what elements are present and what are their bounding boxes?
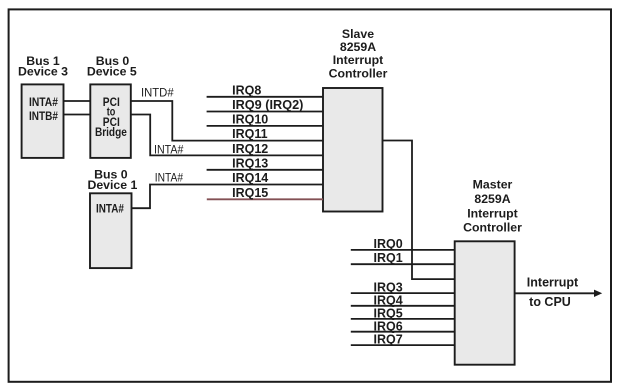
svg-text:IRQ9 (IRQ2): IRQ9 (IRQ2) [232, 98, 303, 112]
svg-text:IRQ14: IRQ14 [232, 171, 268, 185]
label: Interrupt to CPU [527, 275, 579, 309]
svg-text:8259A: 8259A [340, 40, 376, 54]
svg-text:Device 1: Device 1 [87, 178, 137, 192]
device U2: Bus 0 Device 5 PCI-to-PCI bridge box [90, 84, 131, 157]
wire net IRQ13 [207, 169, 323, 171]
svg-text:8259A: 8259A [474, 192, 510, 206]
wire bridge INTD# output to IRQ11 net [131, 101, 323, 141]
svg-text:INTA#: INTA# [154, 142, 184, 156]
label: Slave 8259A Interrupt Controller [329, 27, 388, 81]
svg-text:IRQ8: IRQ8 [232, 83, 261, 97]
label: Bus 0 Device 1 [87, 167, 137, 192]
wire slave INT output to master IRQ2 input [383, 141, 455, 280]
wire net IRQ8 [207, 96, 323, 98]
wire U1 INTA# to bridge U2 [64, 100, 91, 102]
svg-text:Interrupt: Interrupt [467, 207, 518, 221]
svg-text:IRQ15: IRQ15 [232, 186, 268, 200]
svg-text:Slave: Slave [342, 27, 374, 41]
label: Bus 0 Device 5 [87, 54, 137, 79]
svg-text:INTA#: INTA# [29, 95, 58, 109]
svg-text:IRQ11: IRQ11 [232, 127, 267, 141]
svg-text:IRQ7: IRQ7 [374, 333, 403, 347]
svg-text:INTD#: INTD# [141, 85, 174, 99]
wire net IRQ7 [351, 344, 455, 346]
svg-text:IRQ13: IRQ13 [232, 156, 268, 170]
device U1: Bus 1 Device 3 PCI device box [22, 84, 64, 157]
svg-text:IRQ12: IRQ12 [232, 142, 268, 156]
svg-text:IRQ10: IRQ10 [232, 113, 268, 127]
wire net IRQ4 [351, 305, 455, 307]
wire master INT output arrow to CPU [515, 290, 603, 297]
wire net IRQ6 [351, 331, 455, 333]
svg-text:IRQ0: IRQ0 [374, 237, 403, 251]
wire net IRQ9 [207, 111, 323, 113]
svg-text:Controller: Controller [329, 67, 388, 81]
svg-text:Device 3: Device 3 [18, 64, 68, 78]
svg-text:Interrupt: Interrupt [333, 53, 384, 67]
label: Bus 1 Device 3 [18, 54, 68, 79]
device U4: Slave 8259A Interrupt Controller box [323, 88, 383, 212]
wire net IRQ3 [351, 292, 455, 294]
svg-text:Controller: Controller [463, 220, 522, 234]
wire device U3 INTA# to IRQ14 net [132, 185, 324, 209]
svg-text:to CPU: to CPU [529, 295, 571, 309]
svg-text:INTB#: INTB# [29, 109, 58, 123]
svg-text:INTA#: INTA# [155, 171, 184, 185]
wire net IRQ0 [351, 249, 455, 251]
svg-text:Device 5: Device 5 [87, 64, 137, 78]
device U3: Bus 0 Device 1 PCI device box [90, 193, 132, 268]
wire net IRQ10 [207, 125, 323, 127]
label: Master 8259A Interrupt Controller [463, 178, 522, 235]
wire net IRQ5 [351, 318, 455, 320]
wire bridge INTA# output to IRQ12 net [131, 115, 323, 156]
svg-text:Bridge: Bridge [95, 125, 127, 139]
svg-text:IRQ4: IRQ4 [374, 293, 403, 307]
wire net IRQ15 (maroon) [207, 198, 323, 200]
label: PCI to PCI Bridge (U2) [95, 95, 127, 139]
device U5: Master 8259A Interrupt Controller box [455, 241, 515, 364]
svg-text:INTA#: INTA# [96, 201, 124, 215]
wire net IRQ1 [351, 263, 455, 265]
wire U1 INTB# to bridge U2 [64, 114, 91, 116]
svg-text:IRQ6: IRQ6 [374, 319, 403, 333]
svg-text:Master: Master [473, 178, 513, 192]
svg-text:Interrupt: Interrupt [527, 275, 579, 289]
svg-text:IRQ1: IRQ1 [374, 251, 403, 265]
